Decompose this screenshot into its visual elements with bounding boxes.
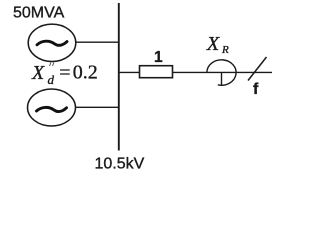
svg-text:1: 1: [154, 49, 163, 66]
svg-text:10.5kV: 10.5kV: [95, 156, 145, 173]
svg-text:R: R: [221, 44, 229, 56]
svg-text:50MVA: 50MVA: [13, 5, 65, 22]
svg-text:=: =: [59, 62, 70, 84]
svg-text:X: X: [31, 62, 45, 84]
svg-text:0.2: 0.2: [73, 62, 98, 84]
svg-text:f: f: [253, 81, 259, 98]
svg-text:X: X: [206, 33, 221, 55]
svg-text:d: d: [48, 72, 55, 87]
